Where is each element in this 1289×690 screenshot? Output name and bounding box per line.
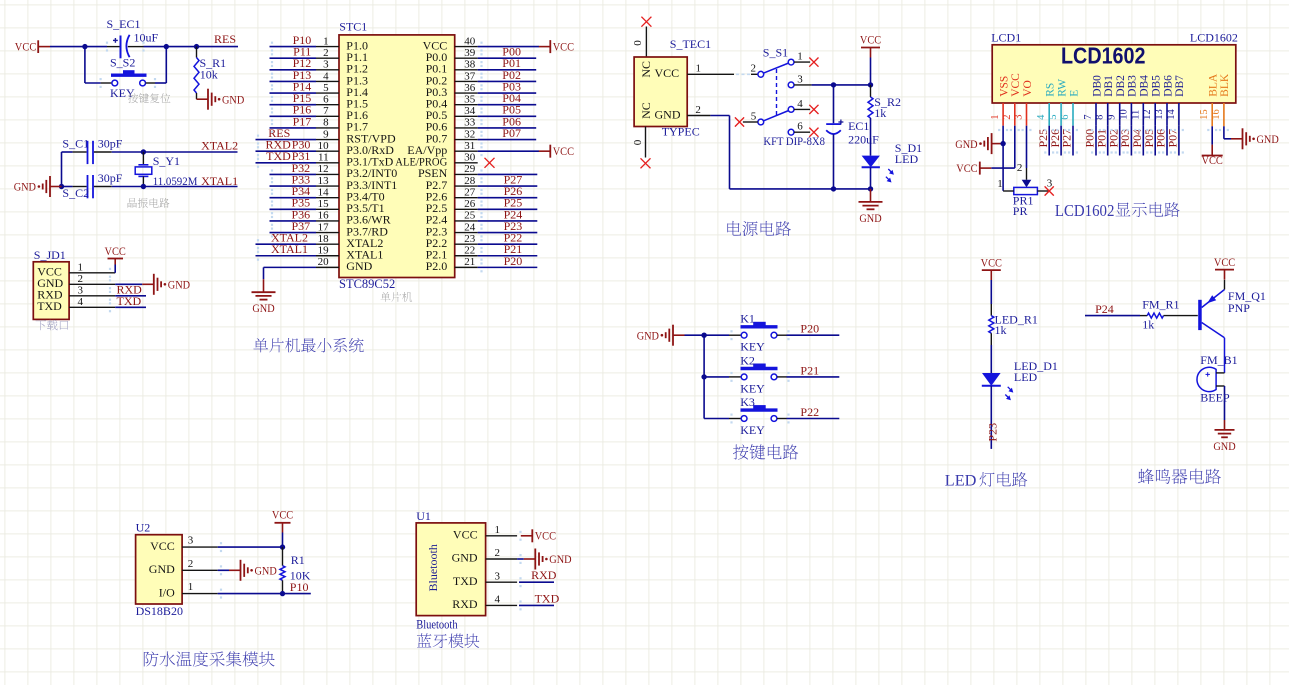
- svg-text:VCC: VCC: [553, 41, 575, 54]
- svg-text:VCC: VCC: [453, 528, 478, 542]
- svg-text:3: 3: [495, 570, 501, 582]
- svg-text:GND: GND: [452, 551, 478, 565]
- svg-text:1k: 1k: [1142, 318, 1154, 332]
- svg-text:40: 40: [464, 35, 476, 47]
- svg-text:3: 3: [797, 73, 803, 85]
- svg-text:VCC: VCC: [535, 530, 557, 543]
- svg-text:Bluetooth: Bluetooth: [416, 618, 458, 632]
- svg-text:XTAL2: XTAL2: [201, 138, 238, 152]
- svg-text:XTAL1: XTAL1: [271, 242, 308, 256]
- svg-text:RXD: RXD: [452, 597, 478, 611]
- svg-text:KEY: KEY: [740, 423, 765, 437]
- svg-text:DB6: DB6: [1162, 75, 1174, 97]
- svg-text:VCC: VCC: [150, 539, 175, 553]
- svg-text:KEY: KEY: [740, 381, 765, 395]
- svg-text:DB7: DB7: [1174, 75, 1186, 97]
- svg-text:39: 39: [464, 47, 476, 59]
- svg-text:DB0: DB0: [1091, 75, 1103, 97]
- svg-text:36: 36: [464, 82, 476, 94]
- svg-text:LED: LED: [895, 152, 919, 166]
- svg-text:TXD: TXD: [535, 591, 560, 605]
- svg-text:DB4: DB4: [1139, 75, 1151, 97]
- svg-text:13: 13: [318, 175, 330, 187]
- svg-text:P07: P07: [502, 126, 521, 140]
- svg-text:GND: GND: [14, 181, 36, 194]
- svg-text:VCC: VCC: [15, 40, 37, 53]
- svg-text:S_Y1: S_Y1: [153, 154, 180, 168]
- svg-text:GND: GND: [955, 138, 977, 151]
- svg-text:2: 2: [495, 547, 501, 559]
- svg-text:GND: GND: [859, 212, 881, 225]
- svg-text:35: 35: [464, 94, 476, 106]
- svg-text:TXD: TXD: [266, 149, 291, 163]
- svg-text:NC: NC: [639, 102, 653, 119]
- svg-text:VCC: VCC: [1010, 73, 1022, 97]
- svg-text:1: 1: [997, 178, 1003, 190]
- svg-text:Bluetooth: Bluetooth: [426, 544, 440, 591]
- svg-text:GND: GND: [255, 565, 277, 578]
- svg-text:1: 1: [495, 524, 501, 536]
- svg-text:GND: GND: [346, 259, 372, 273]
- svg-text:6: 6: [797, 121, 803, 133]
- svg-text:5: 5: [323, 82, 329, 94]
- svg-text:14: 14: [318, 186, 330, 198]
- svg-text:30pF: 30pF: [98, 137, 123, 151]
- svg-text:1k: 1k: [995, 323, 1007, 337]
- svg-text:GND: GND: [655, 107, 681, 121]
- svg-text:P2.0: P2.0: [426, 259, 448, 273]
- svg-text:VCC: VCC: [1214, 256, 1236, 269]
- svg-text:21: 21: [464, 256, 475, 268]
- svg-text:0: 0: [632, 40, 644, 46]
- svg-text:17: 17: [318, 221, 330, 233]
- svg-text:E: E: [1068, 90, 1080, 97]
- svg-text:S_S1: S_S1: [763, 46, 788, 60]
- svg-text:12: 12: [318, 163, 329, 175]
- svg-text:VCC: VCC: [655, 66, 680, 80]
- svg-text:P27: P27: [1060, 129, 1074, 148]
- svg-text:GND: GND: [168, 279, 190, 292]
- svg-text:P10: P10: [290, 580, 309, 594]
- svg-text:6: 6: [323, 94, 329, 106]
- svg-text:VCC: VCC: [981, 256, 1003, 269]
- svg-text:PR: PR: [1013, 204, 1028, 218]
- svg-text:2: 2: [323, 47, 329, 59]
- svg-text:1k: 1k: [874, 106, 886, 120]
- svg-text:S_JD1: S_JD1: [34, 248, 66, 262]
- svg-text:S_S2: S_S2: [110, 55, 135, 69]
- svg-text:4: 4: [797, 98, 803, 110]
- svg-text:7: 7: [1083, 115, 1094, 120]
- svg-text:GND: GND: [637, 329, 659, 342]
- svg-text:XTAL1: XTAL1: [201, 174, 238, 188]
- svg-text:K2: K2: [740, 353, 755, 367]
- svg-text:VSS: VSS: [998, 76, 1010, 97]
- svg-text:4: 4: [78, 296, 84, 308]
- svg-text:VCC: VCC: [553, 145, 575, 158]
- svg-text:DS18B20: DS18B20: [136, 604, 183, 618]
- svg-text:26: 26: [464, 198, 476, 210]
- svg-text:220uF: 220uF: [848, 132, 879, 146]
- svg-text:BLK: BLK: [1219, 73, 1231, 97]
- svg-text:P22: P22: [800, 405, 819, 419]
- svg-text:KFT DIP-8X8: KFT DIP-8X8: [763, 134, 825, 148]
- svg-text:28: 28: [464, 175, 476, 187]
- svg-text:DB5: DB5: [1151, 75, 1163, 97]
- svg-text:VCC: VCC: [272, 509, 294, 522]
- svg-text:TXD: TXD: [453, 574, 478, 588]
- svg-text:2: 2: [188, 558, 194, 570]
- svg-text:DB2: DB2: [1115, 75, 1127, 97]
- svg-text:K3: K3: [740, 395, 755, 409]
- svg-text:S_EC1: S_EC1: [107, 17, 141, 31]
- svg-text:18: 18: [318, 233, 330, 245]
- svg-text:RS: RS: [1045, 83, 1057, 97]
- svg-text:P24: P24: [1095, 302, 1114, 316]
- svg-text:VO: VO: [1022, 80, 1034, 97]
- svg-text:TXD: TXD: [37, 299, 62, 313]
- svg-text:0: 0: [632, 139, 644, 145]
- svg-text:2: 2: [695, 104, 701, 116]
- svg-text:25: 25: [464, 210, 476, 222]
- svg-text:EC1: EC1: [848, 119, 869, 133]
- svg-text:LED: LED: [1014, 370, 1038, 384]
- svg-text:4: 4: [495, 594, 501, 606]
- svg-text:2: 2: [751, 63, 757, 75]
- svg-text:10uF: 10uF: [134, 31, 159, 45]
- svg-text:22: 22: [464, 245, 475, 257]
- svg-text:GND: GND: [1257, 133, 1279, 146]
- svg-text:RW: RW: [1056, 79, 1068, 97]
- svg-text:R1: R1: [291, 553, 305, 567]
- svg-text:32: 32: [464, 128, 475, 140]
- svg-text:K1: K1: [740, 312, 755, 326]
- svg-text:2: 2: [78, 273, 84, 285]
- svg-text:1: 1: [188, 581, 194, 593]
- svg-text:38: 38: [464, 59, 476, 71]
- svg-text:S_C1: S_C1: [62, 137, 89, 151]
- svg-text:BEEP: BEEP: [1200, 391, 1230, 405]
- svg-text:LCD1602: LCD1602: [1190, 30, 1238, 44]
- svg-text:29: 29: [464, 163, 476, 175]
- svg-text:10k: 10k: [200, 68, 218, 82]
- svg-text:16: 16: [318, 210, 330, 222]
- svg-text:7: 7: [323, 105, 329, 117]
- svg-text:P23: P23: [986, 423, 1000, 442]
- svg-text:I/O: I/O: [159, 585, 175, 599]
- svg-text:34: 34: [464, 105, 476, 117]
- svg-text:VCC: VCC: [105, 245, 127, 258]
- svg-text:P17: P17: [293, 114, 312, 128]
- svg-text:VCC: VCC: [1202, 154, 1224, 167]
- svg-text:KEY: KEY: [110, 86, 135, 100]
- svg-text:1: 1: [990, 115, 1001, 120]
- svg-text:VCC: VCC: [860, 34, 882, 47]
- svg-text:U2: U2: [136, 521, 151, 535]
- svg-text:P07: P07: [1166, 129, 1180, 148]
- svg-text:STC89C52: STC89C52: [339, 277, 395, 291]
- svg-text:20: 20: [318, 256, 330, 268]
- svg-text:15: 15: [318, 198, 330, 210]
- svg-text:30: 30: [464, 152, 476, 164]
- svg-text:15: 15: [1199, 109, 1210, 120]
- svg-text:FM_R1: FM_R1: [1142, 298, 1179, 312]
- svg-text:DB3: DB3: [1127, 75, 1139, 97]
- svg-text:LED: LED: [945, 471, 977, 490]
- svg-text:3: 3: [1047, 178, 1053, 190]
- svg-text:GND: GND: [549, 553, 571, 566]
- svg-text:GND: GND: [1213, 440, 1235, 453]
- svg-text:4: 4: [323, 70, 329, 82]
- svg-text:11.0592M: 11.0592M: [153, 174, 198, 188]
- svg-text:1: 1: [696, 63, 702, 75]
- svg-text:31: 31: [464, 140, 475, 152]
- svg-text:VCC: VCC: [956, 162, 978, 175]
- svg-text:U1: U1: [416, 509, 431, 523]
- svg-text:GND: GND: [149, 562, 175, 576]
- svg-text:RES: RES: [214, 32, 236, 46]
- svg-text:GND: GND: [252, 302, 274, 315]
- svg-text:BLA: BLA: [1208, 73, 1220, 97]
- svg-text:27: 27: [464, 186, 476, 198]
- svg-text:23: 23: [464, 233, 476, 245]
- svg-text:10: 10: [318, 140, 330, 152]
- svg-text:1: 1: [78, 262, 84, 274]
- svg-text:3: 3: [188, 535, 194, 547]
- svg-text:9: 9: [323, 128, 329, 140]
- svg-text:LCD1602: LCD1602: [1061, 43, 1146, 69]
- svg-text:5: 5: [751, 110, 757, 122]
- svg-text:2: 2: [1017, 162, 1023, 174]
- svg-text:30pF: 30pF: [98, 171, 123, 185]
- svg-text:STC1: STC1: [339, 19, 367, 33]
- svg-text:3: 3: [78, 285, 84, 297]
- svg-text:4: 4: [1036, 114, 1047, 120]
- svg-text:8: 8: [323, 117, 329, 129]
- svg-text:P20: P20: [504, 254, 523, 268]
- svg-text:LCD1: LCD1: [991, 30, 1021, 44]
- svg-text:KEY: KEY: [740, 340, 765, 354]
- svg-text:33: 33: [464, 117, 476, 129]
- svg-text:S_TEC1: S_TEC1: [670, 37, 711, 51]
- svg-text:S_C2: S_C2: [62, 186, 89, 200]
- svg-text:DB1: DB1: [1103, 75, 1115, 97]
- svg-text:PNP: PNP: [1228, 301, 1250, 315]
- svg-text:RXD: RXD: [531, 568, 557, 582]
- svg-text:NC: NC: [639, 61, 653, 78]
- svg-text:1: 1: [323, 35, 329, 47]
- svg-text:TYPEC: TYPEC: [662, 124, 700, 138]
- svg-text:1: 1: [797, 51, 803, 63]
- svg-text:37: 37: [464, 70, 476, 82]
- svg-text:GND: GND: [222, 93, 244, 106]
- svg-text:11: 11: [318, 152, 329, 164]
- svg-text:P21: P21: [800, 363, 819, 377]
- svg-text:P20: P20: [800, 322, 819, 336]
- svg-text:24: 24: [464, 221, 476, 233]
- svg-text:FM_B1: FM_B1: [1200, 353, 1237, 367]
- svg-text:3: 3: [323, 59, 329, 71]
- svg-text:LCD1602: LCD1602: [1055, 201, 1115, 220]
- svg-text:19: 19: [318, 245, 330, 257]
- svg-text:TXD: TXD: [117, 294, 142, 308]
